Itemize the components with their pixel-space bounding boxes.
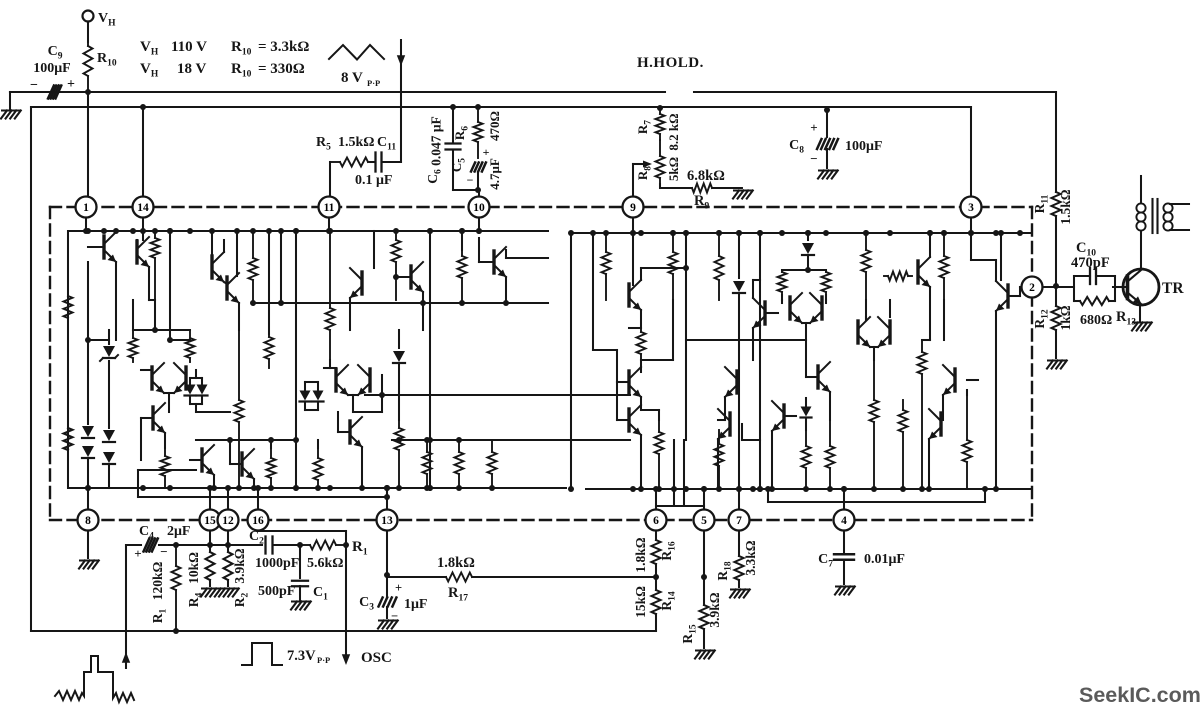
wire pin 4 into IC — [843, 489, 845, 510]
wire col 269 — [268, 231, 270, 334]
resistor IC r17 — [658, 420, 660, 432]
wire h cross2 — [392, 439, 630, 441]
pin 5 — [694, 510, 715, 531]
resistor IC r20 — [718, 430, 720, 444]
resistor IC r25 — [865, 233, 867, 250]
resistor IC r5 — [189, 330, 191, 338]
resistor IC r1 — [67, 231, 69, 296]
pin 8 — [78, 510, 99, 531]
transistor IC q15 — [627, 371, 630, 393]
resistor R18 — [738, 530, 740, 556]
ground R15 — [696, 650, 714, 652]
resistor IC r24 — [829, 420, 831, 446]
wire h 328 — [629, 327, 641, 329]
svg-text:470Ω: 470Ω — [487, 111, 502, 141]
transistor IC q25 — [953, 369, 956, 391]
wire link2 — [133, 329, 190, 331]
resistor IC r14 — [491, 440, 493, 452]
junction dots on right rail — [638, 230, 644, 236]
svg-text:1.8kΩ: 1.8kΩ — [633, 537, 648, 572]
svg-text:= 3.3kΩ: = 3.3kΩ — [258, 39, 309, 55]
transistor IC q17 — [763, 302, 766, 324]
wire pin13 down — [386, 530, 388, 575]
svg-text:0.01μF: 0.01μF — [864, 552, 905, 567]
IC bottom bus right — [586, 488, 1030, 490]
ground R18 — [731, 589, 749, 591]
resistor IC r22 — [825, 270, 827, 272]
pin 6 — [646, 510, 667, 531]
sawtooth wave symbol 8Vp-p — [329, 45, 384, 60]
wire col 237 — [236, 231, 238, 276]
resistor R9 — [659, 184, 661, 188]
resistor IC r15 — [461, 250, 463, 256]
junction dots on right bus — [630, 486, 636, 492]
svg-text:0.1 μF: 0.1 μF — [355, 173, 393, 188]
svg-text:120kΩ: 120kΩ — [150, 562, 165, 601]
wire rail2 to pin 14 — [142, 107, 144, 196]
svg-text:110 V: 110 V — [171, 39, 207, 55]
svg-text:8: 8 — [85, 515, 91, 527]
capacitor C6 — [450, 104, 456, 110]
input arrow to C11 node — [400, 40, 402, 162]
resistor IC r10 — [395, 231, 397, 240]
wire pin 15 into IC — [209, 488, 211, 510]
ground TR emitter — [1139, 304, 1141, 321]
svg-text:2: 2 — [1029, 282, 1035, 294]
wire q9 — [329, 360, 331, 368]
wire h448 — [430, 439, 492, 441]
svg-text:−: − — [810, 151, 817, 166]
svg-text:3.9kΩ: 3.9kΩ — [707, 592, 722, 627]
svg-text:1.5kΩ: 1.5kΩ — [1058, 189, 1073, 224]
diode IC d9 — [801, 407, 812, 417]
wire OSC — [345, 545, 347, 660]
transistor IC q9 pair — [334, 369, 337, 391]
svg-text:4: 4 — [841, 515, 847, 527]
svg-text:P·P: P·P — [367, 78, 380, 88]
ground C3 — [379, 620, 397, 622]
wire col 593 — [592, 233, 594, 350]
pin 11 — [319, 197, 340, 218]
resistor R6 — [475, 104, 481, 110]
pin 2 — [1022, 277, 1043, 298]
transistor IC q8 — [240, 453, 243, 475]
wire h 420r — [718, 419, 725, 421]
wire h mid — [686, 339, 806, 341]
wire col 1001 — [1000, 233, 1002, 280]
wire pin2 base — [1019, 287, 1021, 296]
svg-text:100μF: 100μF — [845, 139, 883, 154]
wire to pin 3 — [970, 107, 972, 197]
svg-text:H.HOLD.: H.HOLD. — [637, 55, 704, 71]
wire link — [88, 339, 109, 341]
resistor IC rC — [605, 233, 607, 252]
wire col 686 — [685, 233, 687, 440]
ground R9 — [734, 190, 752, 192]
diode IC d5 — [300, 391, 311, 401]
wire q20 — [781, 300, 783, 303]
wire interior verticals to pins 6 5 — [673, 440, 675, 506]
transistor IC q18 — [735, 371, 738, 393]
svg-text:1kΩ: 1kΩ — [1058, 305, 1073, 330]
wire col 281 — [280, 231, 282, 303]
svg-text:4.7μF: 4.7μF — [487, 158, 502, 190]
IC top rail right — [570, 232, 1030, 234]
wire h 280 — [753, 279, 760, 281]
transistor IC q27 — [1006, 285, 1009, 307]
resistor IC r28 — [921, 340, 923, 352]
transistor IC q19 — [728, 413, 731, 435]
power terminal VH — [83, 11, 94, 22]
capacitor C8 — [824, 107, 830, 113]
svg-text:12: 12 — [222, 515, 234, 527]
svg-text:500pF: 500pF — [258, 584, 295, 599]
wire bottom bus — [31, 630, 656, 632]
resistor R3 — [273, 544, 300, 546]
wire col 296 — [295, 231, 297, 488]
ground top-left — [9, 92, 11, 109]
wire pin2 to C10 network — [1043, 286, 1074, 288]
svg-text:2μF: 2μF — [167, 524, 191, 539]
wire h 260 — [506, 257, 548, 259]
svg-text:+: + — [395, 581, 402, 595]
transistor IC q26 — [939, 413, 942, 435]
wire h 440 — [196, 439, 296, 441]
pin 12 — [218, 510, 239, 531]
svg-text:5: 5 — [701, 515, 707, 527]
diode IC d7 — [738, 233, 740, 278]
svg-text:1μF: 1μF — [404, 597, 428, 612]
svg-text:5.6kΩ: 5.6kΩ — [307, 556, 344, 571]
wire pin 7 into IC — [738, 489, 740, 510]
wire h 360 — [641, 359, 673, 361]
IC top rail left — [68, 230, 548, 232]
svg-text:1.8kΩ: 1.8kΩ — [437, 555, 475, 571]
wire pin3 col — [970, 233, 972, 260]
svg-text:1.5kΩ: 1.5kΩ — [338, 135, 375, 150]
wire pin 11 into IC — [328, 218, 330, 231]
sync input arrow — [125, 545, 127, 668]
svg-text:8 V: 8 V — [341, 70, 363, 86]
ground pin 8 — [87, 530, 89, 558]
transistor IC q22 — [782, 405, 785, 427]
resistor IC r23 — [805, 430, 807, 446]
transistor IC q1 — [102, 236, 105, 258]
resistor IC r13b — [426, 440, 428, 452]
pin 3 — [961, 197, 982, 218]
wire pin 16 into IC — [257, 488, 259, 510]
resistor IC r21 — [781, 270, 783, 272]
resistor IC r30 — [966, 390, 968, 440]
resistor R2 — [227, 530, 229, 552]
pin 15 — [200, 510, 221, 531]
transistor IC q23 pair — [856, 321, 859, 343]
ground C8 — [819, 170, 837, 172]
IC bottom bus left — [68, 487, 566, 489]
svg-text:100μF: 100μF — [33, 61, 71, 76]
resistor IC r9 — [329, 231, 331, 308]
pin 7 — [729, 510, 750, 531]
diode IC d8 — [807, 233, 809, 240]
wire h 412 — [353, 411, 382, 413]
svg-text:3.9kΩ: 3.9kΩ — [232, 548, 247, 583]
svg-text:7: 7 — [736, 515, 742, 527]
svg-text:14: 14 — [137, 202, 149, 214]
pin 13 — [377, 510, 398, 531]
wire pin13 link — [137, 470, 139, 497]
resistor R11 — [1055, 92, 1057, 192]
potentiometer R8 — [659, 140, 661, 156]
svg-text:= 330Ω: = 330Ω — [258, 61, 305, 77]
resistor R15 — [700, 605, 709, 629]
resistor R12 — [1055, 286, 1057, 306]
transistor IC q6 — [210, 256, 213, 278]
resistor IC r16 — [640, 328, 642, 332]
wire pin 14 into IC — [142, 218, 144, 231]
resistor R14 — [655, 577, 657, 590]
svg-text:15: 15 — [204, 515, 216, 527]
resistor IC r18 — [672, 233, 674, 252]
transistor IC q7 — [225, 277, 228, 299]
transformer — [1140, 176, 1142, 203]
diode IC d6 — [398, 330, 400, 348]
transistor IC q24 — [884, 275, 888, 277]
zener IC d2 — [108, 330, 110, 344]
wire h 470 — [138, 469, 196, 471]
svg-text:16: 16 — [252, 515, 264, 527]
svg-text:OSC: OSC — [361, 650, 392, 666]
wire pin9 col — [632, 233, 634, 285]
svg-text:680Ω: 680Ω — [1080, 313, 1112, 328]
resistor IC r8 — [270, 448, 272, 458]
wire pin 13 into IC — [386, 488, 388, 510]
svg-text:13: 13 — [381, 515, 393, 527]
svg-text:1: 1 — [83, 202, 89, 214]
resistor IC rB — [268, 334, 270, 337]
ground R4 — [202, 588, 220, 590]
wire pin 9 into IC — [632, 218, 634, 233]
wire q23 — [889, 300, 891, 317]
wire pin 12 into IC — [227, 488, 229, 510]
wire col 760 — [759, 233, 761, 489]
transistor IC q14 — [627, 284, 630, 306]
wire 545 row — [176, 544, 262, 546]
resistor IC rA — [252, 231, 254, 258]
transistor IC q3 diff pair — [150, 367, 153, 389]
wire pin16 route — [257, 530, 259, 531]
resistor IC r2 — [64, 428, 73, 450]
wire h 303 — [350, 302, 548, 304]
resistor R17 — [387, 576, 446, 578]
pin 9 — [623, 197, 644, 218]
svg-text:−: − — [30, 78, 38, 93]
wire pin 6 into IC — [655, 489, 657, 510]
capacitor C1 — [299, 545, 301, 578]
wire pin4 down — [843, 530, 845, 552]
wire pin 8 into IC — [87, 488, 89, 510]
wire col 170 — [169, 231, 171, 340]
transistor IC q11 — [409, 266, 412, 288]
resistor IC r13 — [458, 440, 460, 452]
svg-text:7.3V: 7.3V — [287, 648, 316, 664]
transistor IC q2 — [135, 241, 138, 263]
resistor R4 — [209, 530, 211, 552]
wire VH to pin 1 — [87, 92, 89, 196]
resistor R10 — [87, 42, 89, 46]
svg-text:6.8kΩ: 6.8kΩ — [687, 168, 725, 184]
pin 10 — [469, 197, 490, 218]
pulse symbol 7.3Vpp — [242, 643, 282, 665]
wire top rail 2 — [31, 106, 971, 108]
svg-text:9: 9 — [630, 202, 636, 214]
wire col 430 — [429, 231, 431, 488]
resistor IC r26 — [873, 360, 875, 400]
svg-text:−: − — [467, 173, 474, 187]
wire col 944b — [943, 300, 945, 340]
wire h 268 — [641, 267, 686, 269]
wire pin 10 into IC — [478, 218, 480, 231]
ground C1 — [292, 601, 310, 603]
diode IC d3 — [103, 430, 115, 441]
svg-text:+: + — [67, 77, 75, 92]
svg-text:P·P: P·P — [317, 655, 330, 665]
resistor R1 — [173, 542, 179, 548]
diode IC d1 — [87, 340, 89, 424]
resistor IC r4 — [132, 330, 134, 338]
svg-text:10: 10 — [473, 202, 485, 214]
svg-text:5kΩ: 5kΩ — [666, 157, 681, 181]
transistor IC q13 — [492, 251, 495, 273]
resistor IC r3 — [154, 231, 156, 238]
resistor IC r7 — [238, 330, 240, 400]
resistor 680ohm — [1080, 297, 1109, 305]
svg-text:10kΩ: 10kΩ — [186, 552, 201, 584]
svg-text:3.3kΩ: 3.3kΩ — [743, 540, 758, 575]
pin 14 — [133, 197, 154, 218]
wire pin10 col — [478, 238, 480, 262]
resistor IC r29 — [902, 400, 904, 410]
transistor IC q20 pair — [788, 297, 791, 319]
svg-text:+: + — [483, 145, 490, 159]
wire pin 5 into IC — [703, 489, 705, 510]
resistor IC r11 — [398, 420, 400, 428]
wire h cross1 — [365, 394, 630, 396]
svg-text:3: 3 — [968, 202, 974, 214]
resistor R16 — [655, 530, 657, 540]
wire h 303b — [253, 302, 350, 304]
transistor TR — [1123, 269, 1159, 305]
ground R2 — [220, 588, 238, 590]
resistor IC r19 — [718, 233, 720, 256]
wire pin 1 into IC — [85, 218, 87, 231]
sync pulse waveform — [55, 656, 134, 702]
svg-text:−: − — [160, 544, 167, 559]
resistor IC r6 — [164, 448, 166, 456]
diode IC d4 — [185, 385, 196, 395]
resistor IC r27 — [943, 233, 945, 256]
wire col 571 — [570, 233, 572, 489]
wire link 502 — [767, 489, 769, 502]
transistor IC q4 — [151, 407, 154, 429]
wire left edge vertical — [30, 107, 32, 631]
transistor IC q21 — [816, 366, 819, 388]
wire pin5 down — [703, 530, 705, 605]
ground R12 — [1048, 360, 1066, 362]
svg-text:SeekIC.com: SeekIC.com — [1079, 683, 1200, 707]
wire q1 col — [115, 262, 117, 340]
wire pin 3 into IC — [970, 218, 972, 233]
pin 1 — [76, 197, 97, 218]
svg-text:18 V: 18 V — [177, 61, 206, 77]
resistor IC r12 — [317, 448, 319, 458]
svg-text:6: 6 — [653, 515, 659, 527]
transistor IC q5 — [200, 449, 203, 471]
svg-text:TR: TR — [1162, 280, 1184, 297]
junction dots on left bus — [85, 485, 91, 491]
svg-text:11: 11 — [324, 202, 335, 214]
pin 16 — [248, 510, 269, 531]
resistor R7 — [657, 105, 663, 111]
wire top rail 1 — [10, 91, 665, 93]
svg-text:15kΩ: 15kΩ — [633, 586, 648, 618]
svg-text:8.2 kΩ: 8.2 kΩ — [666, 113, 681, 150]
transistor IC q12 — [348, 421, 351, 443]
wire mid h — [141, 369, 152, 371]
IC dashed box — [50, 206, 1032, 208]
junction dots on left rail — [85, 228, 91, 234]
svg-text:1000pF: 1000pF — [255, 556, 299, 571]
ground C7 — [836, 586, 854, 588]
wire col 68 — [67, 231, 69, 488]
svg-text:+: + — [134, 546, 141, 561]
transistor IC q16 — [627, 409, 630, 431]
transistor IC q10 — [360, 272, 363, 294]
svg-text:+: + — [810, 120, 817, 135]
pin 4 — [834, 510, 855, 531]
